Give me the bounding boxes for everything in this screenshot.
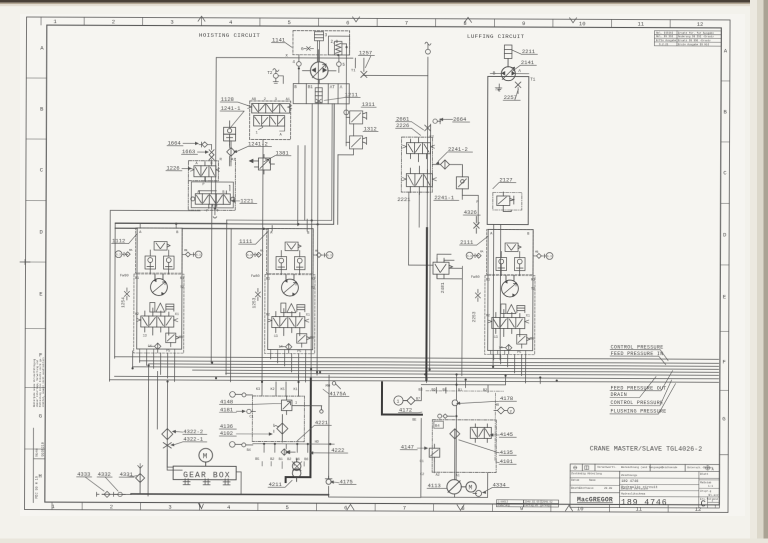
tank symbol T2 xyxy=(273,69,284,84)
pilot valve upper xyxy=(402,138,434,162)
check valve 2241-1 xyxy=(456,165,468,196)
label 4181 xyxy=(219,406,246,413)
svg-text:K2: K2 xyxy=(270,388,274,392)
label 4148 xyxy=(219,398,281,405)
svg-text:T1: T1 xyxy=(530,79,536,83)
GEAR BOX xyxy=(173,466,236,480)
suction filter xyxy=(450,429,460,439)
gauge MR xyxy=(494,407,514,414)
label 1381 xyxy=(264,149,291,161)
svg-text:5: 5 xyxy=(286,504,289,511)
label 2111 xyxy=(460,236,489,246)
pump tank symbol xyxy=(497,84,502,91)
inner drawing frame xyxy=(45,25,721,505)
proportional valve 1226 xyxy=(166,165,192,172)
port labels row xyxy=(255,458,308,462)
svg-text:B3: B3 xyxy=(418,389,422,393)
bleed X on main line xyxy=(425,125,431,131)
svg-text:9: 9 xyxy=(520,505,523,512)
svg-text:20.08: 20.08 xyxy=(604,487,612,490)
shutoff 4147 xyxy=(429,444,440,461)
label 4221 xyxy=(297,419,331,441)
svg-text:10: 10 xyxy=(579,21,586,28)
column numbers bottom xyxy=(51,503,701,513)
label 4136 xyxy=(219,423,236,430)
svg-text:MacGREGOR: MacGREGOR xyxy=(577,496,613,503)
svg-text:Freig.: Freig. xyxy=(542,504,551,507)
coupling 4333 xyxy=(97,491,111,497)
logo glyphs xyxy=(574,466,589,470)
svg-text:1254: 1254 xyxy=(120,297,126,308)
check valve 4175 xyxy=(325,476,332,484)
svg-text:Fw80: Fw80 xyxy=(471,276,480,280)
thick supply line to gear pump xyxy=(286,378,311,482)
svg-text:P: P xyxy=(476,201,478,205)
label 4172 xyxy=(398,407,422,414)
label 4145 xyxy=(489,431,516,438)
relief valve 1312 xyxy=(363,125,378,132)
main pump 4113 xyxy=(447,480,461,494)
pilot valve 1221 xyxy=(191,191,235,209)
port labels xyxy=(418,389,487,393)
svg-text:GEAR BOX: GEAR BOX xyxy=(183,471,231,480)
label 1111 xyxy=(239,231,269,245)
svg-text:6: 6 xyxy=(301,46,304,52)
label 4322-2 xyxy=(172,428,207,435)
svg-text:Fertig.05: Fertig.05 xyxy=(525,504,539,507)
bleed valves double X xyxy=(209,150,214,160)
label 4178 xyxy=(456,395,517,405)
column ticks bottom xyxy=(52,502,668,512)
svg-text:K3: K3 xyxy=(256,388,260,392)
pilot valve lower xyxy=(402,166,436,195)
label 2211 xyxy=(512,48,537,55)
hoisting pilot dash-dot enclosure xyxy=(188,158,235,210)
wire: relief column xyxy=(338,47,354,155)
wire: drain bus xyxy=(226,373,719,375)
shutoff valve X on T line xyxy=(361,71,367,77)
svg-text:B2: B2 xyxy=(270,458,274,462)
column numbers top xyxy=(53,18,703,28)
svg-text:MIC 99 H 16: MIC 99 H 16 xyxy=(36,476,40,498)
label 4135 xyxy=(459,440,517,456)
svg-text:AT: AT xyxy=(330,86,336,90)
junction dots xyxy=(131,361,494,384)
label 2241-1 xyxy=(434,194,459,201)
wire: winch1 feeds xyxy=(140,224,176,229)
label 2664 with plug xyxy=(433,116,470,124)
label 4175 xyxy=(330,478,356,485)
wire: luffing main line xyxy=(427,57,428,382)
svg-text:T1: T1 xyxy=(351,69,356,73)
svg-text:Abl. 99 392: Abl. 99 392 xyxy=(656,34,674,38)
left margin archive box xyxy=(33,428,45,502)
wire: winch1 bottom port drops xyxy=(133,351,175,382)
label 4113 xyxy=(427,482,447,489)
label 4147 xyxy=(400,444,428,451)
svg-text:CRANE MASTER/SLAVE TGL4026-2: CRANE MASTER/SLAVE TGL4026-2 xyxy=(590,445,703,452)
net label: FLUSHING PRESSURE xyxy=(610,383,676,414)
svg-text:189 4746: 189 4746 xyxy=(621,498,668,507)
shutoff 4322-1 xyxy=(163,443,171,449)
net label: DRAIN xyxy=(610,376,656,398)
svg-text:B6: B6 xyxy=(304,458,308,462)
svg-text:Ersatz 99 990 -Ersatz: Ersatz 99 990 -Ersatz xyxy=(678,39,711,42)
svg-text:B2: B2 xyxy=(287,458,291,462)
pilot manifold box xyxy=(191,182,233,208)
svg-text:1: 1 xyxy=(256,131,258,135)
svg-text:P: P xyxy=(206,210,208,214)
label 1112 xyxy=(112,234,138,245)
svg-text:HOISTING CIRCUIT: HOISTING CIRCUIT xyxy=(199,32,260,39)
svg-text:Änderung: Änderung xyxy=(498,504,511,507)
gauge circle 1 xyxy=(394,396,407,405)
junction dots slave unit xyxy=(424,373,558,418)
wire: pilot to manifold P xyxy=(462,195,478,224)
relief valve 2127 xyxy=(493,192,522,212)
scan top dark strip xyxy=(0,0,768,3)
label 1141 xyxy=(271,37,292,48)
scan right edge band xyxy=(764,0,768,543)
gauge port pair top xyxy=(230,392,253,398)
coupling 4332 xyxy=(114,492,126,496)
junction dots pump xyxy=(298,46,348,70)
svg-text:2948.02: 2948.02 xyxy=(542,501,553,504)
electric motor M xyxy=(199,448,213,465)
tank B4 dash-dot box xyxy=(432,420,496,473)
label 1128 xyxy=(220,96,250,106)
svg-text:3: 3 xyxy=(324,32,327,38)
charge cylinder 3 xyxy=(314,32,323,62)
wire: gearbox to pump drive xyxy=(167,440,241,495)
brake valve 1381 xyxy=(249,154,274,174)
bypass check diamond xyxy=(281,449,295,455)
svg-text:B5: B5 xyxy=(255,458,259,462)
thick feed line BE xyxy=(382,382,422,414)
label 2127 xyxy=(493,176,516,188)
svg-text:MR: MR xyxy=(495,404,499,408)
net label: FEED PRESSURE IN xyxy=(610,351,666,365)
shaft couplings xyxy=(183,479,230,485)
luffing manifold tall box xyxy=(487,76,529,224)
boost unit 1141 dashed box xyxy=(293,31,350,55)
wire: winch2 feed drops xyxy=(272,146,307,232)
gauge port pair B4 xyxy=(229,442,252,448)
gear pump 4211 xyxy=(292,459,302,482)
svg-text:2481: 2481 xyxy=(440,282,446,293)
wire: control pressure bus xyxy=(115,357,719,360)
svg-text:Urspr.g: Urspr.g xyxy=(700,490,712,493)
svg-text:2: 2 xyxy=(112,19,115,26)
row letters right xyxy=(722,47,728,422)
label 1211 xyxy=(324,91,360,100)
test point C1 xyxy=(247,409,256,413)
drive motor M xyxy=(461,482,476,492)
svg-text:2253: 2253 xyxy=(471,311,477,322)
luffing pump 2141 xyxy=(501,67,515,81)
svg-text:Hydraulic circuit: Hydraulic circuit xyxy=(621,485,658,490)
svg-text:Zeichnende: Zeichnende xyxy=(661,465,678,469)
wire: suction lines xyxy=(148,365,183,496)
wire: luffing aux trunks xyxy=(430,124,502,370)
svg-text:5: 5 xyxy=(288,19,291,26)
filter 4331 xyxy=(136,463,145,494)
label 4175A with pilot motor xyxy=(323,389,349,397)
svg-text:Zeichnungs: Zeichnungs xyxy=(621,473,638,477)
accumulator 2211 xyxy=(504,45,512,67)
fold marks xyxy=(19,15,577,510)
label 2141 xyxy=(512,59,536,71)
svg-text:Datum: Datum xyxy=(571,479,579,482)
drain pump 4334 xyxy=(473,490,482,496)
svg-text:Zuständig Abteilung: Zuständig Abteilung xyxy=(571,471,602,475)
label 1663 with bleed X xyxy=(181,148,209,155)
manifold ports line xyxy=(253,444,335,453)
K-port dash-dot line xyxy=(426,390,504,392)
svg-text:3: 3 xyxy=(168,504,171,511)
label 4222 xyxy=(309,447,348,455)
svg-text:P: P xyxy=(202,183,204,187)
svg-text:9: 9 xyxy=(522,20,525,27)
label 4334 xyxy=(482,481,509,494)
svg-text:1253: 1253 xyxy=(251,297,257,308)
port labels K xyxy=(256,388,298,392)
svg-text:9935210: 9935210 xyxy=(42,442,46,456)
pump drain ports xyxy=(296,55,341,84)
svg-text:K1: K1 xyxy=(293,388,297,392)
svg-text:Blatt: Blatt xyxy=(700,472,708,476)
wire: winch2 bottom port drops xyxy=(271,354,306,383)
circle logo top right of title block xyxy=(705,466,709,470)
valve 1128 lower section xyxy=(254,115,285,131)
svg-text:B4: B4 xyxy=(247,449,251,453)
svg-text:11: 11 xyxy=(638,21,645,28)
svg-text:C1: C1 xyxy=(420,460,424,464)
wire: hoisting manifold drops xyxy=(304,50,318,379)
wire: 1226 to 1221 links xyxy=(199,145,231,207)
svg-text:HD: HD xyxy=(315,441,319,445)
main pump 1141 circle xyxy=(310,62,328,80)
label 1221 xyxy=(231,197,257,204)
svg-text:LUFFING CIRCUIT: LUFFING CIRCUIT xyxy=(467,33,525,40)
svg-text:Norm: Norm xyxy=(35,448,40,456)
svg-text:2,8: 2,8 xyxy=(330,41,338,45)
svg-text:Änderung 99 392 -Ersatz: Änderung 99 392 -Ersatz xyxy=(678,34,714,38)
svg-text:2948.02.05: 2948.02.05 xyxy=(525,500,541,503)
svg-text:Hydraulikschema: Hydraulikschema xyxy=(621,491,646,495)
wire: 2481 links xyxy=(437,254,463,376)
label 1241-2 with filter diamond xyxy=(233,140,272,153)
svg-text:1:1: 1:1 xyxy=(708,485,713,488)
bleed 6 xyxy=(304,47,314,51)
label 1664 with plug symbol xyxy=(167,140,212,148)
port labels bottom xyxy=(420,473,460,478)
net label: FEED PRESSURE OUT xyxy=(610,370,673,391)
svg-text:6: 6 xyxy=(344,504,347,511)
svg-text:A1: A1 xyxy=(286,98,290,102)
svg-text:2: 2 xyxy=(110,503,113,510)
svg-text:B4: B4 xyxy=(435,425,440,429)
wire: control pressure bus 2 xyxy=(115,376,719,379)
labels 4333 4332 4331 xyxy=(77,471,133,478)
title block xyxy=(570,464,719,509)
wire: T line to luffing xyxy=(364,74,428,76)
wire: hoisting mid trunks xyxy=(211,139,263,396)
svg-text:9.2.21: 9.2.21 xyxy=(659,43,669,46)
wire: drops to pilot block 4148 xyxy=(276,375,299,396)
wire: bus line 4 xyxy=(133,367,719,369)
label 2241-2 xyxy=(436,146,473,165)
main control valve 1128 dashed box xyxy=(250,101,291,140)
svg-text:3: 3 xyxy=(275,98,277,102)
winch unit 2111 xyxy=(433,229,554,376)
thick luffing feed xyxy=(425,228,428,380)
svg-text:G: G xyxy=(722,415,725,422)
pilot block dash-dot enclosure xyxy=(252,396,304,442)
svg-text:A2: A2 xyxy=(436,474,440,478)
valve 1211 stack xyxy=(315,88,322,103)
winch unit 1112 xyxy=(111,223,202,353)
row ticks left/right xyxy=(25,78,730,455)
wire: pump links xyxy=(490,58,529,93)
hoisting manifold block xyxy=(293,79,349,103)
svg-text:10: 10 xyxy=(577,505,584,512)
label 4326 with bleed X xyxy=(463,209,480,216)
breather on main line xyxy=(425,42,431,54)
svg-text:Verantwortl.: Verantwortl. xyxy=(597,465,616,469)
svg-text:A8: A8 xyxy=(252,98,256,102)
filter 1241-2 xyxy=(227,141,236,162)
wire: hoisting A/B feed rails xyxy=(227,103,332,220)
svg-text:MO: MO xyxy=(326,385,331,389)
heater valve 4145 xyxy=(470,424,491,443)
svg-text:189 4746: 189 4746 xyxy=(621,480,638,484)
wire: winch3 bottom port drops xyxy=(494,354,526,383)
breather 4178 xyxy=(452,400,458,406)
filter 4136 with bypass xyxy=(274,415,288,443)
label 2257 xyxy=(503,89,520,101)
pilot valve cluster dash-dot box xyxy=(401,137,432,192)
svg-text:Eberhause: Eberhause xyxy=(579,486,594,490)
svg-text:Erfte Ausgabe: Erfte Ausgabe xyxy=(656,38,677,42)
row letters left xyxy=(38,45,44,480)
wire: pump unit internals xyxy=(329,374,541,498)
svg-text:Abl. 935363: Abl. 935363 xyxy=(656,31,674,35)
filter diamond xyxy=(406,397,415,405)
svg-text:T2: T2 xyxy=(495,88,501,92)
left margin rotated small print xyxy=(33,357,45,407)
wire: pump suction rail to pilot xyxy=(216,58,364,205)
svg-text:M: M xyxy=(203,453,208,461)
wire: pilot cluster drop xyxy=(409,192,434,265)
top-right revision table xyxy=(654,31,721,46)
svg-text:B7: B7 xyxy=(416,398,420,402)
label 1241-1 xyxy=(220,105,244,128)
svg-text:Bl.anz: Bl.anz xyxy=(709,493,719,497)
svg-text:2221: 2221 xyxy=(397,196,411,203)
svg-text:M: M xyxy=(469,484,473,491)
svg-text:Erste Ausgabe 99 H16: Erste Ausgabe 99 H16 xyxy=(678,42,710,46)
drain header xyxy=(102,493,131,495)
net label: CONTROL PRESSURE (lower) xyxy=(610,380,672,407)
brake shuttle 2481 xyxy=(433,258,453,278)
scan bottom edge xyxy=(0,539,768,543)
net label: CONTROL PRESSURE (upper) xyxy=(610,344,668,360)
filter 2241-2 xyxy=(432,160,461,169)
svg-text:Fw80: Fw80 xyxy=(120,274,129,278)
svg-text:Bezeichnung (and language): Bezeichnung (and language) xyxy=(621,465,663,469)
wire: flushing pressure bus xyxy=(110,380,719,383)
svg-text:T2: T2 xyxy=(267,72,273,76)
svg-text:3: 3 xyxy=(170,19,173,26)
spring valve 2,8 xyxy=(328,36,349,55)
wire: bus line 3 xyxy=(149,364,719,366)
compensator 1241-1 xyxy=(224,121,236,145)
svg-text:B1: B1 xyxy=(308,86,314,90)
title block small print xyxy=(571,465,718,501)
svg-text:7: 7 xyxy=(405,20,408,27)
svg-text:6: 6 xyxy=(346,20,349,27)
wire: feed pressure in bus xyxy=(140,361,719,363)
label 4101 xyxy=(496,458,517,465)
svg-text:1:88013: 1:88013 xyxy=(498,500,509,503)
label 4211 xyxy=(268,480,292,488)
svg-text:F: F xyxy=(722,358,725,365)
svg-text:2: 2 xyxy=(264,98,266,102)
svg-text:12: 12 xyxy=(697,21,704,28)
labels 2661 2226 xyxy=(396,116,424,130)
label 4102 xyxy=(219,430,273,437)
svg-text:G: G xyxy=(39,413,42,420)
svg-text:Ersatz für. for Ausgabe: Ersatz für. for Ausgabe xyxy=(678,31,714,35)
svg-text:C: C xyxy=(701,499,707,509)
svg-text:stattet, soweit nicht ausdrück: stattet, soweit nicht ausdrücklich xyxy=(42,357,45,407)
svg-text:Fw80: Fw80 xyxy=(251,275,260,279)
label 4322-1 xyxy=(170,436,207,447)
svg-text:7: 7 xyxy=(403,505,406,512)
relief valve 1311 xyxy=(361,101,376,108)
svg-text:Name: Name xyxy=(589,479,596,482)
gauge M diamond mid xyxy=(438,414,455,418)
wire: drop to 4175A xyxy=(328,375,331,497)
svg-text:1: 1 xyxy=(295,402,297,406)
svg-text:Maßstab: Maßstab xyxy=(700,480,712,484)
pressure reducer 4148 xyxy=(281,396,323,415)
svg-text:C1: C1 xyxy=(249,415,253,419)
winch unit 1111 xyxy=(238,228,333,354)
wire: feed pressure out bus xyxy=(193,370,719,372)
change-note boxes left of title block xyxy=(497,500,559,507)
svg-text:K5: K5 xyxy=(280,388,284,392)
svg-text:BE: BE xyxy=(412,419,416,423)
filter 4322-2 xyxy=(162,429,173,440)
shutoff X 2257 xyxy=(515,82,521,88)
wire: left trunk pair xyxy=(110,210,228,381)
valve 1128 upper section xyxy=(248,103,292,113)
svg-text:1: 1 xyxy=(397,399,400,405)
label 1257 with shutoff xyxy=(358,49,374,67)
